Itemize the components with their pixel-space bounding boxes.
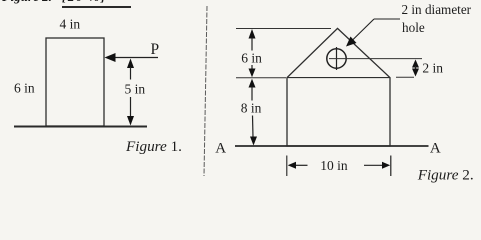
svg-text:5 in: 5 in bbox=[125, 82, 146, 97]
svg-text:8 in: 8 in bbox=[241, 100, 262, 115]
svg-text:Figure 1.: Figure 1. bbox=[125, 138, 182, 155]
svg-text:2 in: 2 in bbox=[422, 60, 443, 75]
svg-text:4 in: 4 in bbox=[60, 17, 81, 32]
svg-text:A: A bbox=[215, 140, 226, 156]
svg-text:6 in: 6 in bbox=[241, 50, 262, 65]
svg-text:P: P bbox=[151, 41, 160, 58]
svg-text:6 in: 6 in bbox=[14, 81, 35, 96]
svg-text:10 in: 10 in bbox=[320, 158, 348, 173]
svg-text:hole: hole bbox=[402, 20, 425, 35]
svg-text:A: A bbox=[430, 141, 441, 157]
svg-text:2 in diameter: 2 in diameter bbox=[402, 2, 472, 17]
svg-text:Figure 2.: Figure 2. bbox=[417, 167, 474, 184]
